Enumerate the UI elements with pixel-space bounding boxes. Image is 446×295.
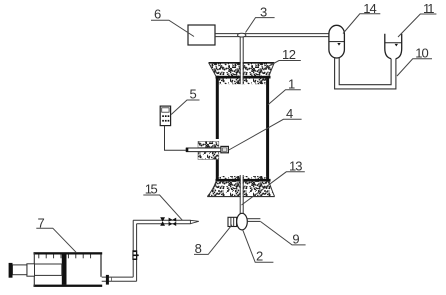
- label 8: [194, 225, 232, 256]
- beaker 11 liquid level: [385, 42, 402, 44]
- pipe 10 (U pipe from vessel 14 to beaker 11): [335, 57, 396, 89]
- syringe 7 inner rod: [34, 264, 62, 275]
- label 11: [398, 1, 436, 37]
- syringe 7 outer rod: [12, 265, 27, 275]
- wire (vertical feed pipe through funnel 12 into column): [241, 34, 243, 85]
- syringe 7 piston seal: [62, 254, 67, 284]
- sensor 4 (tip inside column): [221, 146, 229, 152]
- label 2: [243, 230, 274, 264]
- wire (vertical discharge pipe from column bottom to pump): [241, 175, 243, 214]
- label 15: [143, 182, 182, 221]
- syringe pump 7 : body: [34, 252, 103, 254]
- label 12: [264, 47, 301, 69]
- syringe 7 scale ticks: [39, 255, 91, 259]
- probe port stipple block on column wall: [198, 141, 219, 147]
- union fitting on riser: [132, 250, 137, 260]
- column 1 : bottom stipple band: [219, 176, 266, 179]
- funnel 13 (bottom, stippled): [207, 182, 274, 197]
- syringe 7 collar: [27, 264, 35, 276]
- label 7: [36, 215, 76, 252]
- wire (top horizontal pipe from box 6 to vessel 14): [215, 34, 329, 37]
- label 1: [268, 76, 301, 105]
- svg-text:1: 1: [288, 76, 295, 91]
- svg-text:15: 15: [145, 182, 158, 197]
- label 10: [397, 45, 432, 76]
- syringe 7 handle: [9, 263, 13, 278]
- wire (meter 5 to probe): [165, 126, 187, 151]
- svg-text:4: 4: [286, 106, 293, 121]
- column 1 : bottom rim: [216, 179, 271, 182]
- vessel 14 (capsule): [329, 25, 345, 58]
- fitting on syringe outlet: [106, 275, 109, 285]
- box 6: [188, 25, 215, 45]
- needle tip: [190, 220, 198, 223]
- meter 5: [160, 106, 170, 126]
- svg-text:6: 6: [154, 7, 161, 22]
- pump 2 : head (ellipse): [237, 213, 248, 230]
- column 1 : top rim: [216, 76, 271, 79]
- svg-text:12: 12: [282, 47, 296, 62]
- label 3: [246, 4, 275, 32]
- funnel 12 (top, stippled): [209, 63, 275, 76]
- beaker 11: [385, 34, 391, 59]
- svg-text:13: 13: [289, 159, 302, 174]
- svg-text:9: 9: [292, 232, 299, 247]
- label 9: [261, 222, 306, 247]
- svg-text:2: 2: [256, 249, 263, 264]
- svg-text:8: 8: [195, 241, 202, 256]
- vessel 14 liquid level: [329, 41, 344, 43]
- valve 15 (black bowtie): [169, 218, 177, 226]
- label 14: [343, 1, 380, 34]
- svg-text:10: 10: [415, 45, 428, 60]
- column 1 : right wall: [266, 76, 269, 182]
- svg-text:5: 5: [190, 86, 197, 101]
- valve (small, vertical bowtie): [160, 217, 165, 225]
- column 1 : top stipple band: [219, 79, 266, 85]
- label 13: [242, 159, 305, 206]
- wire (pump outlet pipe, item 9): [247, 219, 260, 222]
- wire (pipe from syringe to riser): [102, 277, 137, 281]
- pump 2 : motor block: [228, 217, 237, 226]
- node 3 (junction ellipse): [238, 33, 246, 37]
- label 5: [171, 86, 199, 114]
- wire (horizontal needle pipe): [133, 220, 190, 223]
- label 4: [229, 106, 302, 150]
- label 6: [151, 7, 194, 37]
- wire (vertical riser pipe): [133, 220, 136, 281]
- column 1 : left wall (with probe gap): [216, 76, 219, 139]
- probe rod: [186, 148, 221, 152]
